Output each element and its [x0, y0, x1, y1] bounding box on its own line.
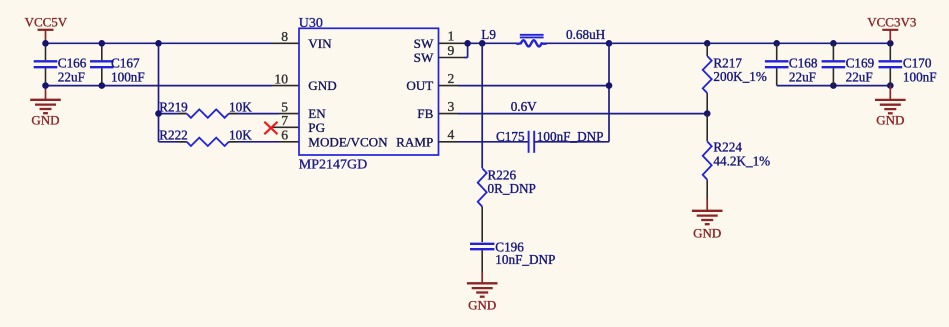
wire C175 to output riser: [534, 141, 609, 143]
svg-text:MP2147GD: MP2147GD: [299, 157, 367, 172]
svg-text:VIN: VIN: [308, 36, 332, 51]
node L9 label: [481, 27, 496, 42]
svg-text:22uF: 22uF: [789, 69, 816, 84]
wire C196 to ground: [481, 250, 483, 273]
capacitor C169: [822, 43, 875, 85]
svg-text:GND: GND: [308, 78, 336, 93]
svg-text:9: 9: [448, 43, 455, 58]
wire FB pin 3: [439, 113, 708, 115]
net label 0.6V: [511, 99, 537, 114]
wire R226 to C196: [481, 207, 483, 243]
svg-text:R217: R217: [713, 55, 742, 70]
wire pin 1 SW to inductor: [439, 42, 518, 44]
pin 7 stub (PG): [272, 126, 300, 128]
wire output riser (node to OUT and C175): [608, 43, 610, 142]
svg-text:200K_1%: 200K_1%: [713, 69, 766, 84]
svg-text:OUT: OUT: [406, 78, 433, 93]
no-connect X on pin 7: [264, 122, 277, 134]
svg-text:44.2K_1%: 44.2K_1%: [713, 153, 770, 168]
svg-text:C175: C175: [496, 129, 525, 144]
wire R222 left segment: [159, 141, 187, 143]
svg-text:L9: L9: [481, 27, 496, 42]
svg-text:GND: GND: [876, 113, 904, 128]
svg-text:10K: 10K: [229, 127, 252, 142]
svg-text:1: 1: [448, 29, 455, 44]
svg-text:0.68uH: 0.68uH: [566, 27, 606, 42]
capacitor C175: [496, 129, 603, 153]
svg-text:8: 8: [281, 29, 288, 44]
power symbol VCC3V3: [867, 14, 916, 41]
junction FB divider: [704, 110, 711, 117]
wire inductor to output node: [546, 42, 609, 44]
junction C167 top: [99, 40, 106, 47]
wire pin 9 SW riser: [439, 43, 468, 57]
wire output GND rail: [777, 85, 891, 87]
svg-text:PG: PG: [308, 120, 325, 135]
junction R219 branch: [155, 110, 162, 117]
wire OUT pin 2: [439, 85, 610, 87]
ground symbol right GND: [875, 86, 906, 128]
ground symbol below C196: [467, 272, 498, 313]
svg-text:7: 7: [281, 113, 288, 128]
junction C166 bottom: [42, 82, 49, 89]
junction pin1/pin9: [464, 40, 471, 47]
svg-text:FB: FB: [417, 106, 433, 121]
svg-text:RAMP: RAMP: [396, 134, 433, 149]
resistor R226: [478, 167, 536, 206]
capacitor C167: [90, 43, 145, 85]
svg-text:10: 10: [274, 71, 288, 86]
junction C168 top: [773, 40, 780, 47]
junction R217 top: [704, 40, 711, 47]
capacitor C168: [765, 43, 818, 85]
wire SW chain down to R226: [481, 43, 483, 168]
capacitor C170: [879, 43, 937, 85]
svg-text:10nF_DNP: 10nF_DNP: [495, 252, 555, 267]
svg-text:GND: GND: [693, 226, 721, 241]
capacitor C166: [34, 43, 87, 85]
junction SW chain: [479, 40, 486, 47]
svg-text:SW: SW: [414, 50, 434, 65]
wire GND rail left (C166 to pin 10): [46, 85, 300, 87]
svg-text:10K: 10K: [229, 100, 252, 115]
svg-text:R222: R222: [159, 127, 188, 142]
junction EN branch: [155, 40, 162, 47]
svg-text:R219: R219: [159, 100, 188, 115]
svg-text:R224: R224: [713, 139, 742, 154]
junction C169 bottom: [830, 82, 837, 89]
wire VIN rail (VCC5V to pin 8): [46, 42, 300, 44]
wire R219 left segment: [159, 113, 187, 115]
resistor R219: [159, 100, 252, 118]
wire RAMP pin 4 to C175: [439, 141, 529, 143]
svg-text:2: 2: [448, 71, 455, 86]
junction VCC3V3 node: [887, 40, 894, 47]
svg-text:VCC3V3: VCC3V3: [867, 14, 916, 29]
junction C167 bottom: [99, 82, 106, 89]
wire R219 right segment (to pin 5): [229, 113, 299, 115]
wire EN pull-up branch: [158, 43, 160, 142]
capacitor C196: [470, 240, 555, 268]
wire output rail to VCC3V3: [609, 42, 890, 44]
resistor R217: [703, 43, 767, 113]
svg-text:0R_DNP: 0R_DNP: [488, 181, 536, 196]
svg-text:VCC5V: VCC5V: [25, 14, 68, 29]
svg-text:100nF: 100nF: [111, 69, 145, 84]
wire R222 right segment (to pin 6): [229, 141, 299, 143]
svg-text:GND: GND: [468, 298, 496, 313]
svg-text:3: 3: [448, 99, 455, 114]
inductor L9 0.68uH: [517, 27, 605, 46]
svg-text:100nF: 100nF: [903, 69, 937, 84]
svg-text:4: 4: [448, 127, 455, 142]
resistor R224: [703, 114, 770, 200]
ground symbol left GND: [30, 86, 61, 128]
svg-text:U30: U30: [299, 16, 323, 31]
junction OUT: [606, 82, 613, 89]
power symbol VCC5V: [25, 14, 68, 41]
svg-text:0.6V: 0.6V: [511, 99, 537, 114]
svg-text:22uF: 22uF: [58, 69, 85, 84]
resistor R222: [159, 127, 252, 146]
junction C169 top: [830, 40, 837, 47]
svg-text:6: 6: [281, 128, 288, 143]
junction inductor output: [606, 40, 613, 47]
junction VCC5V node: [42, 40, 49, 47]
svg-text:GND: GND: [31, 113, 59, 128]
svg-text:MODE/VCON: MODE/VCON: [308, 134, 388, 149]
svg-text:SW: SW: [414, 36, 434, 51]
svg-text:22uF: 22uF: [846, 69, 873, 84]
ground symbol below R224: [692, 199, 723, 241]
IC U30 MP2147GD buck regulator: [274, 16, 454, 173]
junction C170 bottom: [887, 82, 894, 89]
